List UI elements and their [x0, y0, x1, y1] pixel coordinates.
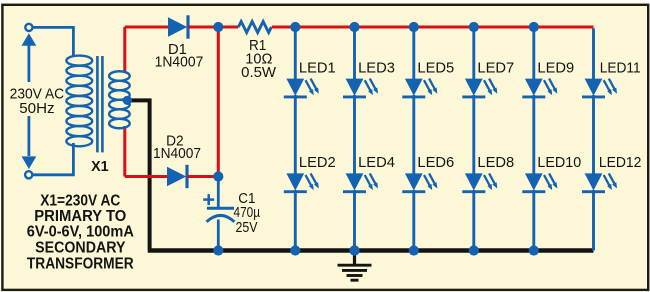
diode D2: [167, 165, 187, 188]
label LED3: [358, 60, 395, 77]
wire: LED5/LED6 column: [412, 27, 415, 251]
wire: secondary bottom lead (red): [123, 126, 126, 177]
node: LED2 bottom junction: [290, 245, 300, 255]
wire: rectified riser to D2 junction (red): [217, 27, 220, 177]
wire: LED supply bus (red): [272, 26, 594, 29]
node: LED7 top junction: [469, 22, 479, 32]
svg-text:1N4007: 1N4007: [153, 145, 201, 162]
label LED10: [537, 154, 581, 171]
wire: LED9/LED10 column: [532, 27, 535, 251]
LED 11: [582, 79, 617, 97]
AC source double-headed arrow: [22, 33, 37, 169]
label LED4: [358, 154, 395, 171]
svg-text:SECONDARY: SECONDARY: [35, 240, 126, 257]
svg-text:6V-0-6V, 100mA: 6V-0-6V, 100mA: [27, 224, 134, 241]
label LED9: [537, 60, 574, 77]
AC mains terminal bottom: [25, 171, 32, 178]
label LED7: [477, 60, 514, 77]
svg-text:TRANSFORMER: TRANSFORMER: [27, 255, 134, 272]
wire: bottom terminal to primary bottom: [32, 143, 73, 175]
transformer X1 primary winding: [66, 56, 92, 147]
node: LED4 bottom junction: [349, 245, 359, 255]
label D1 1N4007: [155, 41, 204, 71]
LED 1: [284, 79, 319, 97]
label transformer description: [27, 193, 134, 273]
LED 9: [522, 79, 557, 97]
wire: LED7/LED8 column: [472, 27, 475, 251]
transformer X1 core: [97, 56, 102, 152]
svg-text:0.5W: 0.5W: [241, 64, 277, 81]
node: LED10 bottom junction: [529, 245, 539, 255]
svg-text:X1: X1: [91, 158, 109, 175]
wire: ground bus (black): [148, 248, 594, 252]
svg-text:LED4: LED4: [358, 154, 395, 171]
svg-text:LED3: LED3: [358, 60, 395, 77]
wire: secondary top lead (red): [123, 27, 126, 72]
node: secondary centre tap: [123, 96, 132, 105]
label LED2: [299, 154, 336, 171]
LED 3: [343, 79, 378, 97]
node: LED6 bottom junction: [409, 245, 419, 255]
LED 12: [582, 173, 617, 191]
svg-text:LED10: LED10: [537, 154, 581, 171]
svg-text:LED11: LED11: [600, 60, 641, 77]
node: LED9 top junction: [529, 22, 539, 32]
node: LED5 top junction: [409, 22, 419, 32]
svg-text:1N4007: 1N4007: [155, 53, 204, 70]
wire: LED3/LED4 column: [353, 27, 356, 251]
node: LED8 bottom junction: [469, 245, 479, 255]
label LED6: [417, 154, 454, 171]
svg-text:LED9: LED9: [537, 60, 574, 77]
svg-text:50Hz: 50Hz: [19, 100, 54, 117]
wire: D2 cathode to C1 node (red): [187, 175, 218, 178]
svg-text:LED1: LED1: [299, 60, 336, 77]
wire: LED11/LED12 column: [592, 28, 595, 250]
svg-text:LED6: LED6: [417, 154, 454, 171]
label 230V AC 50Hz: [10, 85, 65, 117]
LED 8: [462, 173, 497, 191]
label LED5: [417, 60, 454, 77]
node: D2/C1 junction: [213, 171, 223, 181]
wire: centre tap to ground bus (black): [127, 100, 150, 249]
svg-text:LED2: LED2: [299, 154, 336, 171]
label LED11: [600, 60, 641, 77]
label LED8: [477, 154, 514, 171]
label X1: [91, 158, 109, 175]
label C1 470µ 25V: [234, 190, 261, 236]
transformer X1 secondary winding: [109, 71, 130, 128]
wire: secondary top to D1 anode (red): [125, 26, 169, 29]
node: ground junction: [349, 245, 359, 255]
LED 6: [402, 173, 437, 191]
LED 10: [522, 173, 557, 191]
resistor R1: [238, 22, 271, 33]
wire: top terminal to primary top: [33, 27, 74, 57]
wire: secondary bottom to D2 anode (red): [125, 175, 169, 178]
LED 7: [462, 79, 497, 97]
svg-text:LED8: LED8: [477, 154, 514, 171]
svg-text:LED5: LED5: [417, 60, 454, 77]
node: C1 ground junction: [213, 245, 223, 255]
node: D1/R1 junction: [213, 22, 223, 32]
LED 2: [284, 173, 319, 191]
node: LED1 top junction: [290, 22, 300, 32]
wire: D1 cathode to junction (red): [188, 26, 238, 29]
LED 4: [343, 173, 378, 191]
svg-text:LED7: LED7: [477, 60, 514, 77]
capacitor C1: [203, 177, 234, 251]
wire: LED1/LED2 column: [294, 27, 297, 251]
LED 5: [402, 79, 437, 97]
svg-text:25V: 25V: [236, 219, 258, 236]
label R1 10Ω 0.5W: [241, 37, 277, 81]
label LED12: [599, 154, 642, 171]
label LED1: [299, 60, 336, 77]
diode D1: [168, 15, 188, 38]
AC mains terminal top: [25, 24, 32, 31]
ground: [338, 251, 372, 281]
node: LED3 top junction: [349, 22, 359, 32]
svg-text:LED12: LED12: [599, 154, 642, 171]
label D2 1N4007: [153, 132, 201, 162]
